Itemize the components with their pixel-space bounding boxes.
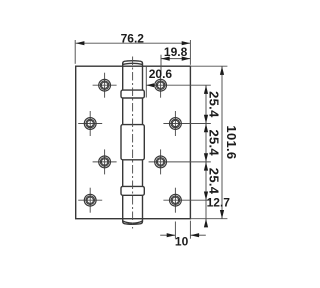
svg-text:25.4: 25.4 [207, 91, 222, 118]
svg-text:76.2: 76.2 [121, 31, 145, 45]
svg-text:12.7: 12.7 [207, 196, 231, 210]
svg-text:10: 10 [175, 234, 189, 248]
svg-text:25.4: 25.4 [207, 168, 222, 195]
svg-text:20.6: 20.6 [149, 67, 173, 81]
svg-text:25.4: 25.4 [207, 129, 222, 156]
svg-text:19.8: 19.8 [164, 45, 188, 59]
svg-text:101.6: 101.6 [224, 125, 239, 159]
